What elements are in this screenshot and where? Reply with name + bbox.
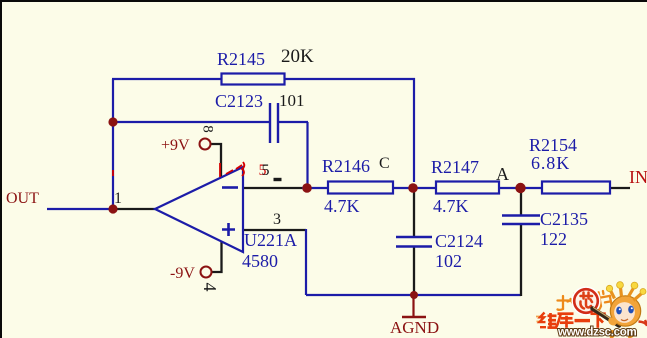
svg-text:4580: 4580 <box>242 251 278 271</box>
wire <box>413 78 415 182</box>
svg-text:R2145: R2145 <box>217 49 265 69</box>
watermark logo <box>536 282 647 338</box>
wire <box>112 78 221 80</box>
svg-text:102: 102 <box>435 251 462 271</box>
svg-text:8: 8 <box>200 125 216 133</box>
pin 1 label <box>114 190 122 207</box>
svg-text:R2154: R2154 <box>529 135 577 155</box>
wire pin3 <box>243 229 306 231</box>
capacitor C2123 <box>215 91 305 143</box>
svg-text:4.7K: 4.7K <box>324 196 360 216</box>
svg-text:20K: 20K <box>281 46 314 67</box>
svg-text:www.dzsc.com: www.dzsc.com <box>557 327 636 338</box>
resistor R2146 <box>322 156 393 216</box>
wire <box>413 188 415 237</box>
svg-text:C2135: C2135 <box>540 209 588 229</box>
svg-text:OUT: OUT <box>6 190 39 207</box>
svg-text:5: 5 <box>262 162 270 179</box>
svg-text:IN: IN <box>629 167 647 187</box>
svg-text:122: 122 <box>540 229 567 249</box>
svg-text:6.8K: 6.8K <box>531 153 570 173</box>
svg-text:A: A <box>496 164 509 184</box>
resistor R2145 <box>217 46 314 85</box>
pin 4 label <box>200 283 220 292</box>
wire <box>393 187 436 189</box>
magnifier handle <box>593 309 620 326</box>
wire <box>47 208 113 210</box>
wire pin4 <box>212 241 222 272</box>
svg-text:C2124: C2124 <box>435 231 483 251</box>
svg-text:U221A: U221A <box>244 230 297 250</box>
node C label <box>379 155 390 172</box>
svg-text:AGND: AGND <box>390 318 439 337</box>
svg-text:R2147: R2147 <box>431 157 479 177</box>
resistor R2154 <box>529 135 610 194</box>
wire <box>499 187 542 189</box>
wire <box>413 247 415 295</box>
wire <box>520 224 522 296</box>
svg-text:3: 3 <box>273 211 281 228</box>
wire <box>113 121 269 123</box>
wire <box>306 294 521 296</box>
wire <box>279 121 308 123</box>
wire <box>305 229 307 295</box>
+9V terminal <box>161 137 211 154</box>
junction <box>108 117 117 126</box>
wire <box>306 122 308 188</box>
resistor R2147 <box>431 157 499 216</box>
node A label <box>496 164 509 184</box>
node IN <box>629 167 647 187</box>
wire pin8 <box>210 144 221 177</box>
junction node A <box>515 183 525 193</box>
ground AGND <box>390 296 439 337</box>
capacitor C2135 <box>502 209 588 249</box>
wire pin2 <box>243 187 302 189</box>
wire <box>285 78 415 80</box>
op-amp U221A <box>155 167 297 271</box>
svg-text:C2123: C2123 <box>215 91 263 111</box>
wire <box>520 188 522 215</box>
glyph zhao <box>558 294 579 311</box>
svg-text:1: 1 <box>114 190 122 207</box>
svg-text:4.7K: 4.7K <box>433 196 469 216</box>
wire <box>610 187 630 189</box>
wire pin1 <box>113 208 155 210</box>
brand text weiku yixia <box>540 313 606 328</box>
wire <box>112 79 114 209</box>
node OUT <box>6 190 39 207</box>
mascot <box>606 282 647 338</box>
svg-text:+9V: +9V <box>161 137 190 154</box>
pin 8 label <box>200 125 216 133</box>
svg-text:-9V: -9V <box>170 265 195 282</box>
capacitor C2124 <box>396 231 483 271</box>
pin 2 label <box>259 162 282 180</box>
magnifier <box>573 288 600 315</box>
speed dashes <box>536 317 542 322</box>
wire <box>302 187 328 189</box>
glyph pian <box>596 290 612 310</box>
junction <box>302 183 312 193</box>
svg-text:R2146: R2146 <box>322 156 370 176</box>
junction <box>408 183 418 193</box>
junction <box>410 291 418 299</box>
svg-text:4: 4 <box>200 283 220 292</box>
pin 3 label <box>273 211 281 228</box>
svg-text:C: C <box>379 155 390 172</box>
svg-text:101: 101 <box>279 91 305 110</box>
-9V terminal <box>170 265 212 282</box>
annotation red marks <box>113 162 244 177</box>
junction <box>108 204 117 213</box>
